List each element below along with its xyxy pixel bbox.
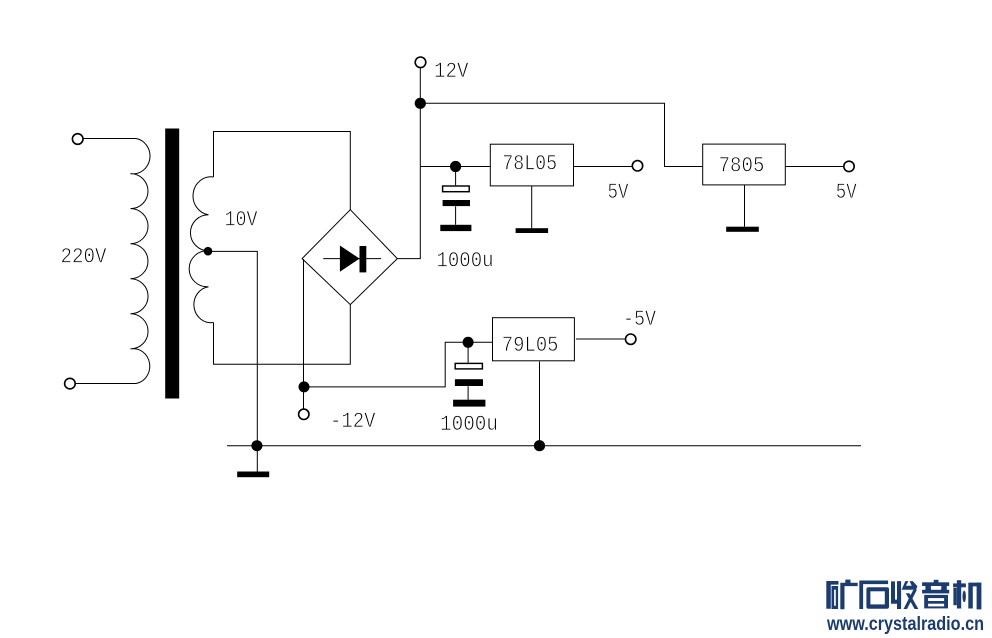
svg-text:220V: 220V [61,244,107,270]
svg-text:-5V: -5V [623,306,656,332]
svg-text:78L05: 78L05 [502,151,557,177]
svg-text:10V: 10V [225,207,258,233]
svg-text:12V: 12V [434,58,469,84]
svg-text:79L05: 79L05 [502,332,559,358]
svg-text:1000u: 1000u [440,411,498,437]
svg-text:1000u: 1000u [437,247,494,273]
svg-text:5V: 5V [608,179,629,205]
svg-text:5V: 5V [836,179,857,205]
svg-text:7805: 7805 [719,153,765,179]
svg-text:-12V: -12V [330,408,376,434]
svg-text:www.crystalradio.cn: www.crystalradio.cn [826,613,984,635]
